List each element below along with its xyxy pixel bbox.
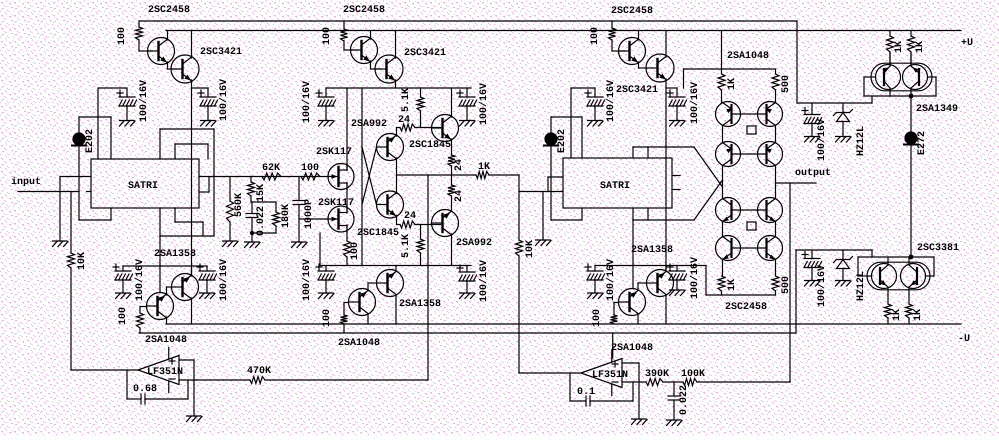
svg-text:2SC3381: 2SC3381 [917,243,959,254]
capacitor C 100/16V F2 [457,265,477,293]
wire Q4 emitter [395,80,397,88]
wire T1b base lead [140,307,147,314]
wire T2b collector [367,314,369,325]
resistor R 5.1K upper [417,88,424,128]
resistor R 24 chain upper [448,155,455,175]
label 2SA1349 [916,104,958,115]
svg-text:2SA992: 2SA992 [351,119,387,130]
transistor OUT row1a 2SA1048 [716,102,741,127]
wire opamp2 feedback [570,373,586,401]
wire T2b emitter to T2a base [368,283,377,291]
svg-text:+U: +U [961,38,973,49]
label 2SA1048 stage1 [145,335,187,346]
transistor T2b 2SA1048 stage2 [349,289,376,316]
wire E202 top lead [79,117,111,159]
svg-text:2SA1048: 2SA1048 [727,51,769,62]
resistor R 1K out top [718,69,725,103]
ground cap F1 [319,293,335,299]
transistor Q6 2SC3421 stage3 [646,54,674,82]
label 0.022 b rotated [679,385,690,415]
resistor R 1K d [906,295,913,324]
svg-text:500: 500 [781,276,792,294]
label 100 stage2 bottom rotated [322,309,333,327]
wire Q1 collector [167,31,169,41]
transistor OUT row2a 2SA1048 [716,142,741,167]
wire T3a collector [665,295,667,325]
transistor pair 2SC3381 [867,257,930,295]
label LF351N 1 [147,367,183,378]
wire satri1 pin b stub [87,191,92,193]
transistor M2 2SC1845 [377,191,404,218]
wire J1 source to J2 drain [346,183,348,214]
transistor T1a 2SA1358 stage1 [172,274,199,301]
label 5.1K upper rotated [401,88,412,112]
label 2SC3421 stage1 [200,47,242,58]
wire feedback vertical stage2 [427,175,429,380]
wire opamp1 feedback [127,370,141,399]
label 1K a rotated [894,41,905,53]
wire out base link row1 [732,113,767,115]
resistor R 100 stage3 bottom [611,315,618,324]
wire out col2 links [775,126,777,277]
svg-text:2SC3421: 2SC3421 [404,48,446,59]
label E202 stage1 rotated [85,129,96,153]
svg-text:2SC2458: 2SC2458 [148,5,190,16]
svg-text:-U: -U [958,334,970,345]
wire cap A2 tap [192,88,209,97]
svg-text:5.1K: 5.1K [401,88,412,112]
wire output feedback vertical [789,183,791,382]
label 100 stage1 bottom rotated [118,307,129,325]
wire E272 line [910,96,912,257]
node junction dot input net [250,231,254,235]
diode E272 [904,132,918,145]
wire bus up stub [319,233,321,266]
label 100/16V C1 rotated [605,80,617,122]
wire satri2 pin a loop [548,177,563,192]
resistor R 100 stage3 [609,21,626,51]
label 100 jfet gate [301,163,319,174]
label 2SC2458 output bottom [725,302,767,313]
label 100 stage3 bottom rotated [592,309,603,327]
svg-text:100K: 100K [681,369,705,380]
label 24 chain upper rotated [454,159,465,171]
svg-text:100: 100 [592,309,603,327]
wire E202-2 top lead [551,117,582,158]
transistor J1 2SK117 [328,164,354,190]
transistor pair 2SA1349 [871,53,932,96]
wire out base link row2 [732,153,767,155]
transistor J2 2SK117 [328,206,354,232]
label 62K [262,163,280,174]
wire node line [397,174,477,176]
wire M1-M2 mid [396,158,398,194]
svg-text:2SC3421: 2SC3421 [200,47,242,58]
label 560K rotated [234,193,245,217]
svg-text:100/16V: 100/16V [605,80,617,122]
wire opamp1 plus to gnd [179,360,194,416]
wire Q1 emitter to Q2 base [168,62,177,69]
label 390K [645,369,669,380]
node junction dot [909,94,914,99]
label 100/16V F1 rotated [301,259,313,301]
ground cap B2 [460,121,476,127]
label 1K out top rotated [727,78,738,90]
label 2SA992 right [456,238,492,249]
svg-text:100/16V: 100/16V [218,79,230,121]
wire input [18,191,79,193]
label 2SC3421 stage3 [616,85,658,96]
label HZ12L bottom rotated [856,271,867,301]
label 2SA1358 stage1 [154,249,196,260]
resistor R 62K [262,173,281,180]
wire 390K-100K [663,381,683,383]
wire 0.022b branch [673,382,675,396]
wire stage2 vee bus [320,265,471,267]
svg-text:1000P: 1000P [304,199,315,229]
svg-text:24: 24 [454,190,465,202]
svg-text:100: 100 [322,27,333,45]
svg-text:100: 100 [118,307,129,325]
svg-text:output: output [795,168,831,179]
label 2SC2458 stage2 [343,5,385,16]
label 1000P rotated [304,199,315,229]
resistor R 470K [250,377,265,384]
capacitor C 100/16V B2 [457,88,477,121]
wire D2 collector down [451,234,453,266]
label 2SC1845 right [409,140,451,151]
resistor R 1K driver [476,172,489,179]
resistor R 100 stage2 [341,21,358,50]
label HZ12L top rotated [856,126,867,156]
ground cap C1 [588,121,604,127]
wire out base link row4 [732,247,767,249]
label 1K b rotated [915,41,926,53]
label 0.1 [577,387,595,398]
ground 0.022 node [245,242,261,248]
wire output node [776,182,817,184]
ground zener top [836,137,852,143]
label 100/16V C2 rotated [689,82,701,124]
wire T3b collector [637,314,639,325]
wire stage3 vee bus [595,265,706,267]
transistor OUT row1b 2SA1048 [758,102,783,127]
wire M2 emitter down [396,216,398,225]
label 2SA1048 stage2 [338,338,380,349]
ground opamp2 [632,419,648,425]
block U1 SATRI [91,159,199,208]
svg-text:100/16V: 100/16V [218,259,230,301]
wire T3b emitter to T3a base [638,283,647,291]
label 100/16V G2 rotated [689,257,701,299]
resistor R 24 lower [397,221,441,228]
transistor T3b 2SA1048 stage3 [619,289,646,316]
label 100 stage3 rotated [590,27,601,45]
block U3 SATRI [563,158,672,208]
wire M1 collector up [396,128,398,137]
wire Q3 emitter to Q4 base [371,61,382,69]
label 2SA1048 stage3 [611,343,653,354]
svg-text:1K: 1K [892,309,903,321]
label 24 chain lower rotated [454,190,465,202]
svg-text:1K: 1K [913,309,924,321]
svg-text:LF351N: LF351N [592,370,628,381]
wire output top feed [721,31,723,70]
wire 100K right [697,381,790,383]
label 100/16V A1 rotated [138,80,150,122]
capacitor C 0.68 [141,394,145,404]
wire output top line [684,69,776,88]
diode E202 stage1 [72,133,86,146]
capacitor C 100/16V D [802,103,822,137]
svg-text:15K: 15K [256,184,267,202]
resistor R 5.1K lower [417,225,424,266]
label 1K d rotated [913,309,924,321]
resistor R 500 out bottom [772,276,779,295]
ground cap F2 [460,293,476,299]
wire D1 collector [451,88,453,117]
transistor T1b 2SA1048 stage1 [147,293,174,320]
label -U [958,334,970,345]
wire 470K to stage2 [265,379,428,381]
label 100/16V A2 rotated [218,79,230,121]
wire cross diag 1 [362,147,377,205]
svg-text:1K: 1K [727,78,738,90]
wire 0.022 bottom node [251,233,276,242]
label 2SC3381 [917,243,959,254]
ground cap G1 [588,293,604,299]
zener D1 HZ12L [834,103,853,137]
wire output cross diag 2 [694,180,723,220]
wire box1 right pin loop [199,177,209,192]
label 5.1K lower rotated [401,234,412,258]
svg-text:2SC2458: 2SC2458 [343,5,385,16]
wire opamp1 input [72,369,138,371]
wire box1 loop rect outer [160,129,214,236]
wire Q5 collector [638,31,640,41]
wire T1a emitter [191,266,193,276]
wire opamp2 input [519,372,581,374]
svg-text:LF351N: LF351N [147,367,183,378]
svg-text:100/16V: 100/16V [478,83,490,125]
ground cap A2 [201,121,217,127]
svg-text:2SA992: 2SA992 [456,238,492,249]
label 100/16V H rotated [816,265,828,307]
resistor R 24 upper [397,124,441,131]
wire 0.68 to minus [145,380,250,399]
svg-text:100/16V: 100/16V [478,260,490,302]
transistor D1 2SC1845 right [432,115,459,142]
svg-text:100: 100 [322,309,333,327]
svg-text:0.68: 0.68 [133,384,157,395]
svg-text:2SA1358: 2SA1358 [631,245,673,256]
svg-text:500: 500 [781,75,792,93]
wire stage3 gnd branch [542,192,544,241]
transistor Q4 2SC3421 stage2 [375,55,403,83]
ground stage3 input [536,240,552,246]
wire 1000P to jfet2 gate [299,218,329,220]
label 100 stage2 rotated [322,27,333,45]
svg-text:SATRI: SATRI [128,181,158,192]
label 0.68 [133,384,157,395]
label 15K rotated [256,184,267,202]
svg-text:5.1K: 5.1K [401,234,412,258]
ground 560K [223,241,239,247]
capacitor C 0.022 a [246,202,258,233]
wire box1 to T1b [159,236,161,293]
capacitor C 100/16V A1 [117,90,137,121]
svg-text:100/16V: 100/16V [301,259,313,301]
svg-text:2SA1349: 2SA1349 [916,104,958,115]
wire out col1 links [722,126,724,277]
resistor R 390K [646,379,663,386]
wire Q6 collector [665,31,667,58]
ground cap E2 [200,293,216,299]
capacitor C 100/16V C1 [585,90,605,121]
label 100/16V B2 rotated [478,83,490,125]
svg-text:2SA1358: 2SA1358 [399,299,441,310]
wire satri1 out [199,176,329,178]
resistor R 24 chain lower [448,175,455,211]
label 10K stage3 rotated [525,240,536,258]
label 100K [681,369,705,380]
wire T1b collector [166,317,168,324]
transistor D2 2SA992 right [432,210,459,237]
node junction dot 2 [909,255,914,260]
wire Q6 emitter long [665,79,667,270]
wire satri2 input [519,191,563,193]
transistor OUT row4b 2SC2458 [758,236,783,261]
ground 0.022 b [667,420,683,426]
transistor Q2 2SC3421 [171,55,199,83]
label 470K [247,366,271,377]
wire T1b emitter to T1a base [167,287,173,295]
wire T2b base lead [344,303,348,316]
label 1K driver [478,162,490,173]
transistor Q1 2SC2458 [148,38,175,65]
resistor R 15K [248,177,255,203]
svg-text:1K: 1K [478,162,490,173]
capacitor C 1000P [293,177,305,243]
ground zener bottom [836,281,852,287]
wire box1 loop inner bottom [175,208,203,236]
wire E202 bottom loop [79,146,111,220]
resistor R 1K c [885,295,892,324]
ground cap D [805,137,821,143]
svg-text:10K: 10K [77,252,88,270]
label 2SC1845 lower [357,228,399,239]
svg-text:100/16V: 100/16V [816,119,828,161]
resistor R 1K b [908,31,915,65]
svg-text:1K: 1K [727,279,738,291]
resistor R 10K stage1 [68,192,75,371]
svg-text:180K: 180K [281,204,292,228]
transistor OUT row3a 2SC2458 [716,198,741,223]
wire +U bus [166,30,961,32]
wire out tie rect rows34 [747,222,756,230]
wire Q4 collector [395,31,397,59]
label 2SA1358 stage3 [631,245,673,256]
svg-text:E272: E272 [917,131,928,155]
capacitor C 100/16V E2 [197,264,217,293]
svg-text:0.022: 0.022 [679,385,690,415]
svg-text:470K: 470K [247,366,271,377]
capacitor C 0.1 [586,396,590,406]
label 2SK117 upper [316,147,352,158]
wire out tie rect rows12 [747,126,756,134]
label 24 upper [398,115,410,126]
ground cap B1 [319,121,335,127]
capacitor C 100/16V F1 [316,264,336,293]
ground cap A1 [120,121,136,127]
op-amp U2 LF351N [138,347,179,392]
svg-text:0.1: 0.1 [577,387,595,398]
label 0.022 a rotated [256,206,267,236]
resistor R 100 stage1 bottom [137,313,144,333]
svg-text:100: 100 [301,163,319,174]
svg-text:1K: 1K [915,41,926,53]
svg-text:24: 24 [404,211,416,222]
label 2SK117 lower [318,198,354,209]
svg-text:62K: 62K [262,163,280,174]
wire input gnd branch [59,177,61,242]
svg-text:0.022: 0.022 [256,206,267,236]
wire +V top rail [139,20,797,22]
svg-text:1K: 1K [894,41,905,53]
svg-text:100: 100 [590,27,601,45]
wire box2 loop top [633,147,694,158]
label 24 lower [404,211,416,222]
transistor Q3 2SC2458 stage2 [351,37,378,64]
resistor R 100 stage2 bottom [341,315,348,333]
wire T3b base lead [614,303,618,316]
resistor R 100K [683,379,697,386]
svg-text:2SA1048: 2SA1048 [338,338,380,349]
label 2SA1358 stage2 [399,299,441,310]
wire box2 pin stubs [672,176,680,190]
op-amp U4 LF351N [581,350,622,395]
label 2SC2458 stage1 [148,5,190,16]
label 180K rotated [281,204,292,228]
svg-text:2SC2458: 2SC2458 [611,6,653,17]
svg-text:390K: 390K [645,369,669,380]
label 500 out bottom rotated [781,276,792,294]
wire 2SA1349 base loops [864,77,936,96]
svg-text:2SC2458: 2SC2458 [725,302,767,313]
svg-text:10K: 10K [525,240,536,258]
wire box2 loop bottom [633,208,694,220]
label 100/16V F2 rotated [478,260,490,302]
capacitor C 100/16V G1 [585,264,605,293]
wire T1a collector [191,298,193,324]
svg-text:2SA1048: 2SA1048 [611,343,653,354]
label 1K out bottom rotated [727,279,738,291]
label input [11,176,41,188]
label LF351N 2 [592,370,628,381]
label 100/16V E2 rotated [218,259,230,301]
wire box2 to T3b [632,220,634,289]
svg-text:100/16V: 100/16V [301,81,313,123]
label 100 stage1 rotated [117,27,128,45]
capacitor C 0.022 b [668,396,680,420]
resistor R 1K out bottom [718,276,725,295]
wire -V bus2 [139,332,796,334]
label 2SC2458 stage3 [611,6,653,17]
wire J1 drain [346,88,348,171]
wire T2a collector [395,295,397,325]
label 100/16V D rotated [816,119,828,161]
wire +V drop right [797,21,872,103]
